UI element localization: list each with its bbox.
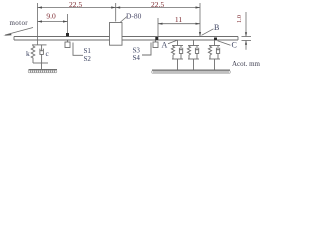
motor leader [5,28,33,36]
arrow 22.5a right [111,6,116,8]
extension line x=67.5 sensor S1 [67,14,69,34]
dimension line 22.5 first [38,7,116,9]
shaft beam bottom edge right segment [122,39,238,41]
svg-text:motor: motor [10,19,29,27]
spring k [31,45,35,63]
arrow 11 left [158,23,163,25]
svg-text:9.0: 9.0 [46,12,56,21]
D-80 leader [121,17,128,23]
vdim upper line [245,12,247,37]
svg-text:22.5: 22.5 [151,0,164,9]
extension line x=37.5 left bearing [37,3,39,45]
ground line right [152,69,230,71]
svg-text:22.5: 22.5 [69,0,82,9]
arrow 22.5b right [196,6,201,8]
node S1 dot on beam [66,33,69,36]
left support k-c [29,45,58,70]
damper c cup [40,49,44,63]
ground hatch left [28,70,57,73]
right small vertical dimension 1.0 [242,12,252,50]
svg-text:S4: S4 [133,54,141,62]
damper c piston [40,45,43,51]
sensor box under beam at A [142,40,158,55]
arrow 22.5b left [116,6,121,8]
motor leader arrowhead [3,34,11,36]
dimension line 22.5 second [116,7,200,9]
node C dot [214,38,217,41]
sensor box under beam at S1 [65,40,83,55]
shaft beam top edge right segment [122,36,238,38]
leader C [218,41,231,46]
disc D-80 [110,23,123,46]
shaft beam top edge left segment [14,36,110,38]
extension line x=158 point A [157,18,159,37]
arrow B down onto beam [199,32,201,37]
extension line x=115.5 disc centre [115,3,117,22]
dimension lines [38,3,201,45]
ground hatch right [152,71,231,74]
right support pair 3 [208,40,220,70]
texts [10,0,261,68]
right support pair 2 [187,40,199,70]
shaft beam bottom edge left segment [14,39,110,41]
svg-text:D-80: D-80 [126,12,142,21]
ground line left [29,69,58,71]
right support pair 1 [171,40,183,70]
svg-text:1.0: 1.0 [236,15,243,23]
svg-text:C: C [232,40,237,49]
svg-text:S2: S2 [84,55,92,63]
dimension line 11 [158,23,200,25]
svg-text:A: A [162,41,168,50]
dimension line 9.0 [38,21,68,23]
arrow 9.0 right [63,20,68,22]
shaft left end face [13,37,15,41]
leader B [202,29,214,36]
vdim tick bottom [242,40,252,42]
svg-text:k: k [26,49,30,58]
stub to ground [41,63,43,70]
svg-text:Acot. mm: Acot. mm [232,60,261,68]
S3S4 leader L [142,43,151,56]
svg-text:11: 11 [175,15,182,24]
vdim lower line [245,41,247,50]
arrowheads dims [38,6,202,36]
vdim tick top [242,36,252,38]
vdim arrow up [245,41,247,45]
arrow 11 right [196,23,201,25]
node A dot [155,37,158,40]
svg-text:B: B [214,23,219,32]
bottom bar [33,62,48,64]
extension line x=200 point B [199,3,201,37]
vdim arrow down [245,32,247,36]
S1S2 leader L [73,43,83,56]
svg-text:S3: S3 [133,46,141,54]
leader A [168,40,177,44]
arrow 22.5a left [38,6,43,8]
arrow 9.0 left [38,20,43,22]
top bar [32,44,47,46]
shaft right end face [237,37,239,41]
